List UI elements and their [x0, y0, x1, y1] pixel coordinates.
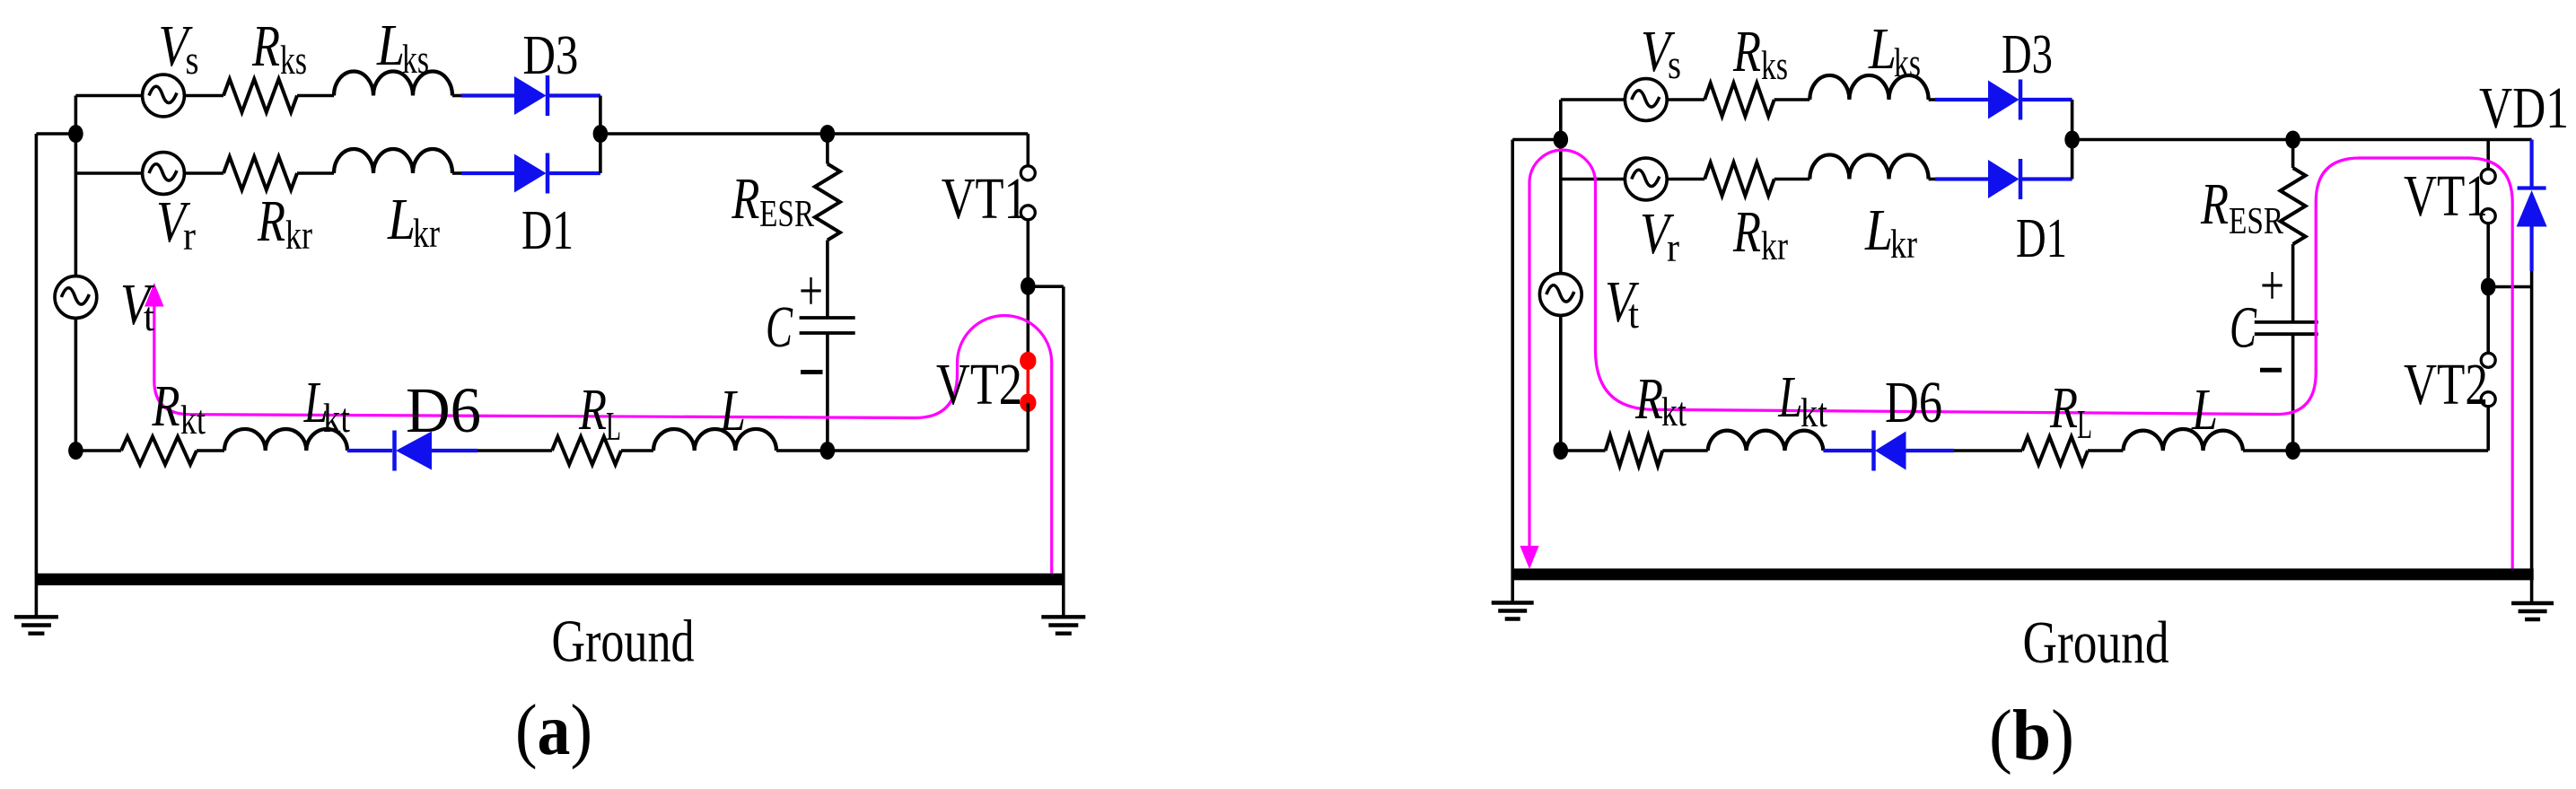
- svg-text:VT1: VT1: [2404, 163, 2488, 229]
- svg-text:+: +: [799, 259, 823, 322]
- wire: (b) blue anode wire D1: [1935, 177, 1988, 180]
- wire: (a) Rkt to Lkt: [197, 449, 224, 452]
- wire: (b) D3 cathode wire: [2021, 98, 2072, 101]
- wire: (a) diode join vertical: [599, 96, 602, 174]
- diode D3 (b): [1988, 81, 2020, 119]
- svg-text:VD1: VD1: [2479, 75, 2569, 141]
- switch VT2 (a) bottom contact: [1020, 394, 1036, 412]
- wire: (a) blue anode wire D1: [461, 171, 514, 175]
- inductor Lkt (a): [224, 429, 347, 451]
- svg-text:R: R: [1634, 366, 1663, 432]
- svg-text:(a): (a): [515, 691, 592, 770]
- svg-text:L: L: [1868, 16, 1897, 82]
- svg-text:R: R: [578, 377, 607, 443]
- svg-text:D3: D3: [522, 25, 578, 86]
- wire: (b) D6 to RL: [1954, 449, 2022, 452]
- svg-text:ks: ks: [1761, 42, 1788, 88]
- svg-text:kt: kt: [323, 395, 350, 441]
- switch VT2 (a) closed link: [1027, 361, 1030, 403]
- inductor Lkr (b): [1809, 154, 1928, 179]
- svg-text:R: R: [257, 188, 285, 254]
- wire: (a) blue cathode wire D6: [347, 449, 392, 452]
- wire: (a) outer-to-inner link: [36, 132, 75, 136]
- wire: (b) VT2 to bottom corner: [2486, 407, 2490, 451]
- svg-text:t: t: [1628, 291, 1639, 337]
- wire: (b) bottom bus to VT2 corner: [2293, 449, 2489, 452]
- svg-text:kr: kr: [1890, 221, 1917, 267]
- resistor RESR (b): [2281, 168, 2306, 244]
- resistor Rkr (a): [223, 157, 297, 190]
- source Vr (a): [143, 153, 185, 195]
- current path (b) left branch: [1529, 150, 2512, 568]
- wire: (b) D1 cathode wire: [2021, 177, 2072, 180]
- wire: (b) RESR to cap: [2291, 244, 2295, 322]
- svg-text:R: R: [251, 13, 280, 79]
- resistor RL (b): [2022, 437, 2088, 465]
- wire: (b) VD1 anode wire: [2530, 227, 2534, 272]
- svg-text:s: s: [186, 37, 199, 83]
- resistor Rks (b): [1704, 83, 1774, 117]
- svg-text:Ground: Ground: [2023, 609, 2169, 676]
- source Vt (a): [55, 276, 97, 319]
- wire: (b) inner-left vertical: [1559, 100, 1563, 451]
- wire: (b) VT1 to node: [2486, 224, 2490, 281]
- wire: (a) RESR top lead: [826, 134, 829, 164]
- node: (a) left junction: [68, 125, 83, 143]
- resistor RESR (a): [815, 164, 840, 241]
- svg-text:D3: D3: [2002, 24, 2053, 85]
- switch VT1 (a) top terminal: [1021, 166, 1035, 180]
- wire: (a) D1 cathode wire: [548, 171, 600, 175]
- svg-text:D1: D1: [2016, 208, 2067, 269]
- ground symbol (b) left: [1492, 601, 1534, 604]
- wire: (a) bottom bus Rkt lead: [75, 449, 121, 452]
- resistor RL (a): [552, 437, 621, 465]
- wire: (a) row1 lead: [75, 94, 143, 98]
- wire: (a) cap to bottom bus: [826, 333, 829, 451]
- wire: (b) Vs to Rks: [1667, 98, 1705, 101]
- wire: (b) node stub right: [2488, 285, 2531, 289]
- wire: (b) row1 lead: [1561, 98, 1625, 101]
- current path arrow (a) head: [145, 283, 164, 307]
- node: (b) right mid node: [2481, 278, 2496, 296]
- svg-text:ks: ks: [280, 37, 307, 83]
- svg-text:ks: ks: [1894, 39, 1921, 85]
- wire: (a) Lkr lead: [452, 171, 461, 175]
- wire: (b) right ground riser: [2530, 271, 2534, 603]
- diode D1 (a): [514, 154, 547, 193]
- source Vr (b): [1625, 158, 1667, 200]
- svg-text:kt: kt: [1661, 389, 1687, 434]
- svg-text:C: C: [2230, 295, 2257, 361]
- svg-text:t: t: [144, 294, 154, 339]
- current path (a): [154, 303, 1052, 574]
- node: (a) RESR top node: [820, 125, 836, 143]
- svg-text:+: +: [2260, 253, 2284, 317]
- wire: (b) Rks to Lks: [1774, 98, 1810, 101]
- diode D6 (a): [396, 432, 432, 470]
- svg-text:Ground: Ground: [552, 608, 695, 674]
- resistor Rkr (b): [1704, 162, 1774, 196]
- wire: (b) node to VT2: [2486, 294, 2490, 355]
- source Vt (b): [1539, 274, 1582, 316]
- svg-text:D6: D6: [406, 374, 481, 446]
- svg-text:kt: kt: [1801, 390, 1827, 435]
- current path arrow (b) head: [1520, 546, 1538, 569]
- switch VT1 (a) bottom terminal: [1021, 206, 1035, 220]
- capacitor C (a) bottom plate: [800, 331, 855, 335]
- svg-text:L: L: [1778, 364, 1803, 430]
- node: (a) bottom-left junction: [68, 442, 83, 460]
- ground bus bar (b): [1513, 568, 2534, 580]
- svg-text:ESR: ESR: [2229, 201, 2283, 242]
- switch VT2 (b) bottom terminal: [2481, 392, 2495, 407]
- wire: (a) row2 lead: [75, 171, 143, 175]
- inductor L (a): [653, 429, 776, 451]
- inductor Lkt (b): [1708, 431, 1824, 451]
- wire: (b) blue anode wire D6: [1906, 449, 1955, 452]
- svg-text:kr: kr: [1761, 223, 1788, 268]
- source Vs (b): [1625, 79, 1667, 121]
- svg-text:D6: D6: [1885, 370, 1942, 435]
- wire: (b) Lkr lead: [1929, 178, 1935, 181]
- svg-text:R: R: [1732, 19, 1761, 84]
- capacitor C (b) bottom plate: [2255, 332, 2318, 336]
- inductor Lkr (a): [334, 149, 452, 173]
- wire: (a) VT1 to node: [1027, 221, 1030, 353]
- wire: (a) inner-left vertical: [74, 96, 78, 451]
- label minus (a): [801, 370, 823, 374]
- node: (b) RESR top node: [2285, 131, 2300, 149]
- ground symbol (a) right: [1041, 615, 1085, 618]
- switch VT2 (b) top terminal: [2481, 353, 2495, 367]
- wire: (b) bottom bus Rkt lead: [1561, 449, 1606, 452]
- wire: (b) L to cap node: [2243, 449, 2293, 452]
- capacitor C (a) top plate: [800, 316, 855, 320]
- diode VD1 (b): [2518, 186, 2546, 189]
- wire: (b) diode join vertical: [2071, 100, 2074, 180]
- svg-text:VT1: VT1: [942, 166, 1028, 232]
- ground symbol (a) left: [14, 615, 58, 618]
- wire: (a) blue anode wire D6: [432, 449, 478, 452]
- wire: (a) D3 cathode wire: [548, 93, 600, 97]
- wire: (a) Vs to Rks: [184, 94, 223, 98]
- svg-text:L: L: [387, 187, 416, 252]
- svg-text:L: L: [719, 378, 746, 443]
- node: (b) rectifier output node: [2064, 131, 2080, 149]
- wire: (a) L to VT2 corner: [776, 449, 1028, 452]
- node: (b) left junction: [1554, 131, 1569, 149]
- resistor Rks (a): [223, 79, 297, 112]
- switch VT1 (b) bottom terminal: [2481, 209, 2495, 224]
- wire: (a) RL to L: [621, 449, 653, 452]
- svg-text:R: R: [2049, 375, 2078, 441]
- svg-text:r: r: [1667, 224, 1679, 270]
- svg-text:(b): (b): [1989, 697, 2074, 776]
- wire: (b) cap to bottom bus: [2291, 334, 2295, 451]
- wire: (a) outer-left vertical to ground: [35, 134, 39, 617]
- switch VT2 (a) top contact: [1020, 352, 1036, 370]
- svg-text:R: R: [2200, 171, 2229, 237]
- svg-text:L: L: [2191, 377, 2218, 443]
- capacitor C (b) top plate: [2255, 320, 2318, 324]
- wire: (b) mid horizontal bus: [2072, 138, 2532, 142]
- wire: (b) blue cathode wire D6: [1823, 449, 1871, 452]
- svg-text:L: L: [376, 13, 405, 78]
- wire: (a) RESR to cap: [826, 241, 829, 319]
- svg-text:ks: ks: [402, 36, 429, 82]
- wire: (b) outer-to-inner link: [1512, 138, 1561, 142]
- svg-text:s: s: [1668, 41, 1681, 87]
- wire: (a) mid horizontal bus: [600, 132, 1028, 136]
- svg-text:R: R: [732, 166, 760, 232]
- svg-text:VT2: VT2: [2404, 352, 2488, 417]
- wire: (a) VT2 to bottom corner: [1027, 403, 1030, 451]
- wire: (a) Rks to Lks: [297, 94, 334, 98]
- label minus (b): [2260, 368, 2282, 373]
- ground bus bar (a): [36, 574, 1065, 585]
- svg-text:L: L: [1864, 197, 1893, 263]
- svg-text:R: R: [152, 373, 180, 439]
- node: (b) cap bottom node: [2285, 442, 2300, 460]
- node: (a) cap bottom node: [820, 442, 836, 460]
- diode D3 (a): [514, 76, 547, 115]
- wire: (b) outer-left vertical to ground: [1511, 140, 1514, 603]
- svg-text:R: R: [1732, 199, 1761, 265]
- wire: (a) top-right corner to VT1: [1027, 134, 1030, 166]
- wire: (a) D6 to RL: [478, 449, 552, 452]
- diode D1 (b): [1988, 160, 2020, 198]
- wire: (a) node stub right: [1028, 285, 1064, 288]
- diode D6 (b): [1875, 432, 1906, 470]
- inductor L (b): [2123, 429, 2243, 451]
- wire: (a) blue anode wire D3: [461, 93, 514, 97]
- svg-text:L: L: [606, 403, 621, 449]
- svg-text:VT2: VT2: [936, 352, 1022, 417]
- switch VT1 (b) top terminal: [2481, 169, 2495, 183]
- node: (a) right mid node: [1021, 277, 1036, 295]
- inductor Lks (a): [334, 72, 452, 96]
- svg-text:kt: kt: [180, 397, 206, 443]
- wire: (a) Vr to Rkr: [184, 171, 223, 175]
- wire: (b) Vr to Rkr: [1667, 178, 1705, 181]
- wire: (b) row2 lead: [1561, 178, 1625, 181]
- node: (b) bottom-left junction: [1554, 442, 1569, 460]
- wire: (b) RL to L: [2088, 449, 2123, 452]
- wire: (a) Lks lead: [452, 94, 461, 98]
- resistor Rkt (a): [121, 437, 197, 465]
- wire: (b) blue anode wire D3: [1935, 98, 1988, 101]
- svg-text:r: r: [183, 213, 196, 259]
- svg-text:L: L: [2077, 401, 2092, 447]
- svg-text:C: C: [766, 294, 793, 360]
- svg-text:kr: kr: [285, 212, 312, 258]
- wire: (b) Rkt to Lkt: [1662, 449, 1707, 452]
- wire: (a) Rkr to Lkr: [297, 171, 334, 175]
- ground symbol (b) right: [2511, 601, 2554, 605]
- resistor Rkt (b): [1606, 435, 1663, 466]
- wire: (a) right ground riser: [1062, 286, 1065, 617]
- svg-text:kr: kr: [413, 210, 440, 256]
- node: (a) rectifier output node: [593, 125, 609, 143]
- svg-text:ESR: ESR: [759, 194, 814, 235]
- source Vs (a): [143, 75, 185, 117]
- inductor Lks (b): [1809, 75, 1928, 100]
- wire: (b) VT1 top stub: [2486, 140, 2490, 171]
- svg-text:D1: D1: [521, 200, 574, 261]
- wire: (b) RESR top lead: [2291, 140, 2295, 169]
- wire: (b) VD1 cathode wire: [2530, 140, 2534, 188]
- wire: (b) Lks lead: [1929, 98, 1935, 101]
- wire: (b) Rkr to Lkr: [1774, 178, 1810, 181]
